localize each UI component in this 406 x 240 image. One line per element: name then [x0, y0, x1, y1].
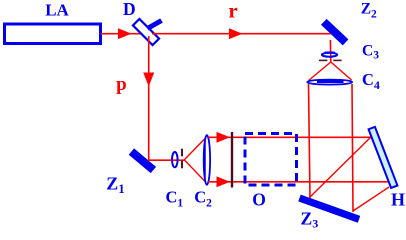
object O (dashed box) [245, 134, 297, 186]
svg-text:r: r [228, 0, 237, 23]
wire diverging rays C1 focus to C2 [184, 138, 206, 183]
arrow on LA-D beam [118, 28, 132, 39]
svg-text:p: p [116, 74, 127, 95]
lens C3 [322, 53, 337, 57]
wire reference ray Z3 to H top [310, 134, 375, 198]
svg-text:O: O [252, 189, 266, 209]
wire beam LA to D [101, 33, 141, 35]
arrow on top object beam [217, 132, 231, 143]
diffuser plate (maroon line) [231, 132, 233, 188]
lens C4 [307, 80, 352, 85]
arrow on r beam [229, 28, 243, 39]
mirror Z2 [324, 22, 346, 43]
wire beam Z2 down to focus [329, 40, 331, 62]
svg-text:H: H [391, 189, 405, 209]
mirror Z1 [131, 152, 153, 170]
beam splitter D [133, 19, 159, 45]
beam splitter D tick [148, 21, 162, 29]
hologram plate H [369, 127, 398, 188]
svg-text:LA: LA [45, 0, 69, 19]
focal plane dashes of C1 [181, 149, 183, 169]
wire reference ray Z3 to H bottom [353, 187, 389, 211]
arrow on p beam [143, 73, 154, 87]
mirror Z3 [300, 198, 360, 219]
wire top object beam C2 to H [208, 136, 372, 138]
wire bottom object beam C2 to H [208, 181, 389, 183]
lens C1 [172, 152, 178, 167]
wire beam p: D down to Z1 [148, 36, 150, 160]
arrow on bottom object beam [217, 176, 231, 187]
wire vertical beam right from C4 to Z3 [352, 84, 353, 212]
wire beam D to Z2 (r) [152, 33, 332, 35]
svg-text:D: D [123, 0, 136, 19]
laser LA [5, 24, 101, 44]
focal plane dashes of C3 [319, 59, 342, 61]
wire vertical beam left from C4 to Z3 [309, 84, 311, 199]
wire diverging rays C3 to C4 [309, 62, 352, 81]
lens C2 [204, 135, 210, 185]
wire beam Z1 to C1 focus [148, 159, 184, 161]
